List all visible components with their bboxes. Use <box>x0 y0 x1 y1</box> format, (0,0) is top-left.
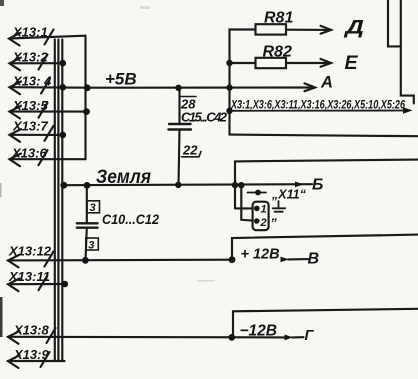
svg-text:X13:12: X13:12 <box>8 244 52 259</box>
svg-text:+5В: +5В <box>105 70 137 89</box>
wire bus vertical line 3 <box>61 40 63 362</box>
arrow head D <box>321 26 332 34</box>
resistor R81 right lead <box>286 29 331 31</box>
wire -12V branch up to distribution line <box>233 309 418 338</box>
contact X11 pin 2 dot <box>254 218 260 224</box>
wire arrow-line under X3 pin list <box>230 110 407 112</box>
wire into X11 contact 1 <box>235 207 253 209</box>
resistor branch vertical from +5V <box>230 30 256 135</box>
svg-text:X13:1: X13:1 <box>12 25 48 40</box>
capacitor C10...C12 lower lead <box>86 228 87 261</box>
arrow head E <box>321 59 332 67</box>
wire stub after arrow to B label <box>288 258 308 260</box>
wire ground horizontal (Zemlya) <box>63 184 313 185</box>
junction +5V / resistor branch <box>226 84 232 90</box>
wire +5V distribution line to right edge <box>230 135 418 137</box>
arrow head B mid-line <box>295 182 304 188</box>
tolerance box 3 lower <box>86 238 99 250</box>
svg-text:Б: Б <box>312 177 323 194</box>
paper smudges <box>0 0 4 337</box>
underline of value 22 <box>182 152 202 157</box>
connector X11 body <box>253 202 269 231</box>
svg-text:3: 3 <box>90 202 96 214</box>
capacitor C15...C42 plates <box>169 123 191 125</box>
pin X13:6 <box>10 150 86 166</box>
svg-text:Д: Д <box>343 18 365 39</box>
svg-text:X3:1,X3:6,X3:11,X3:16,X3:26,X5: X3:1,X3:6,X3:11,X3:16,X3:26,X5:10,X5:26 <box>230 98 405 112</box>
overline of value 28 <box>181 96 196 98</box>
pin X13:5 <box>10 103 87 119</box>
wire stub after arrow to G label <box>292 336 304 338</box>
capacitor C15...C42 branch upper lead <box>178 88 180 124</box>
junction ground / bus3 <box>60 182 67 189</box>
pin X13:7 <box>10 126 63 142</box>
svg-text:−12В: −12В <box>240 322 278 339</box>
capacitor C10...C12 plates <box>77 222 98 224</box>
svg-text:1: 1 <box>261 204 267 216</box>
capacitor C15...C42 lower lead <box>179 130 180 186</box>
arrow head G mid-line <box>285 335 294 341</box>
wire ground branch up to top distribution line <box>235 160 418 209</box>
resistor R82 right lead <box>286 62 331 64</box>
pin X13:11 <box>8 275 65 291</box>
svg-text:„: „ <box>271 208 279 223</box>
junction X13:4 / +5V rail <box>84 84 91 91</box>
pin X13:9 <box>8 352 65 368</box>
wire vertical +5V rail x85 <box>84 36 86 160</box>
svg-text:22: 22 <box>182 143 198 158</box>
wire bus vertical line 2 <box>57 40 59 362</box>
junction X13:5 / +5V rail <box>83 108 90 115</box>
svg-text:X13:8: X13:8 <box>13 323 49 338</box>
junction X3 arrow tap <box>226 108 232 114</box>
svg-text:Земля: Земля <box>96 167 151 188</box>
resistor R82 left lead <box>230 62 256 64</box>
arrow head V mid-line <box>281 257 290 263</box>
pin X13:2 <box>10 55 63 71</box>
arrow head A <box>305 83 316 91</box>
svg-text:X13:5: X13:5 <box>12 98 48 113</box>
junction X13:7 / bus3 <box>60 132 67 139</box>
pin X13:4 <box>10 79 88 95</box>
svg-text:„X11“: „X11“ <box>271 188 307 202</box>
junction +12V / C10 branch <box>82 257 89 264</box>
svg-text:X13:11: X13:11 <box>8 269 50 284</box>
svg-text:R81: R81 <box>264 9 293 26</box>
svg-text:C10...C12: C10...C12 <box>102 211 159 227</box>
junction ground / X11 branch <box>238 182 244 188</box>
junction X13:4 / bus3 <box>60 84 67 91</box>
svg-text:2: 2 <box>260 217 267 229</box>
junction -12V / branch up <box>228 334 235 341</box>
wire bus vertical line 1 <box>54 40 56 362</box>
pin X13:12 and +12V wire <box>8 252 233 268</box>
svg-text:X13: 4: X13: 4 <box>12 74 52 89</box>
svg-text:В: В <box>308 251 320 268</box>
svg-text:3: 3 <box>88 239 94 251</box>
junction ground / top branch <box>232 182 238 188</box>
svg-text:X13:7: X13:7 <box>12 118 48 133</box>
svg-text:X13:2: X13:2 <box>12 50 48 65</box>
resistor R82 body <box>256 58 287 68</box>
wire +12V branch up to distribution line <box>232 235 418 260</box>
block outline top right corner <box>388 0 401 46</box>
wire +5V horizontal to arrow A <box>87 86 315 88</box>
svg-text:X13:6: X13:6 <box>11 146 47 161</box>
svg-text:+ 12В: + 12В <box>241 247 280 263</box>
capacitor C10...C12 upper lead <box>86 185 88 223</box>
svg-text:E: E <box>345 52 359 74</box>
junction +12V / branch up <box>229 256 236 263</box>
contact pair dot above X11 <box>255 190 261 196</box>
svg-text:C15...C42: C15...C42 <box>181 110 228 125</box>
wire ground branch to X11 contact 2 <box>241 185 252 220</box>
pin X13:8 and -12V wire <box>8 328 286 344</box>
pin X13:1 <box>9 30 86 46</box>
chassis ground symbol <box>273 201 286 212</box>
svg-text:A: A <box>320 74 333 92</box>
svg-text:Г: Г <box>305 328 315 344</box>
junction X13:11 / bus3 <box>62 281 69 288</box>
svg-text:R82: R82 <box>263 44 292 61</box>
tolerance box 3 upper <box>87 201 100 213</box>
junction +5V / C15 branch <box>175 85 181 91</box>
junction R82 tap <box>226 60 232 66</box>
resistor R81 body <box>256 24 287 34</box>
junction ground / C15 branch <box>175 182 181 188</box>
contact pair symbol above X11 <box>248 192 267 194</box>
svg-text:X13:9: X13:9 <box>13 347 49 362</box>
junction X13:2 / bus3 <box>60 60 67 67</box>
contact X11 pin 1 dot <box>254 206 260 212</box>
arrow head X3 list line <box>403 107 413 114</box>
junction ground / C10 branch <box>84 182 91 189</box>
